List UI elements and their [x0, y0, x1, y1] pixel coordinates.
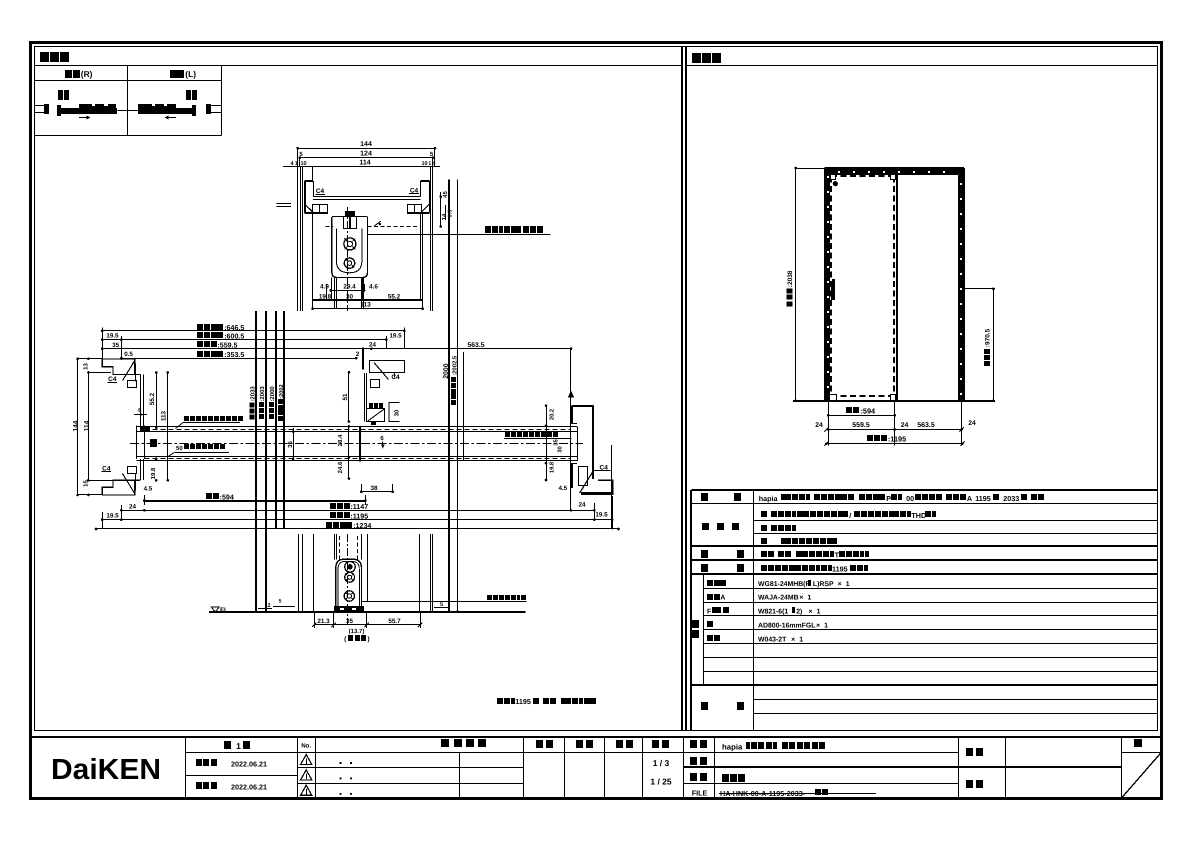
dim 13 / 15	[87, 357, 90, 360]
right extension verticals bottom	[594, 503, 596, 520]
spec table frame	[691, 489, 1157, 491]
svg-text:THD: THD	[911, 511, 926, 520]
stacked dim L1 wall opening 646.5	[102, 330, 404, 332]
svg-text:1: 1	[846, 581, 850, 588]
svg-text:C4: C4	[391, 374, 400, 381]
svg-text:10: 10	[300, 161, 306, 167]
elevation inner frame lines	[829, 174, 831, 400]
elevation bottom dim extensions	[828, 401, 830, 446]
svg-text:1: 1	[817, 609, 821, 616]
svg-text:1: 1	[799, 636, 803, 643]
svg-text:WG81-24MHB(R: WG81-24MHB(R	[758, 581, 810, 588]
door band top lines	[137, 426, 578, 428]
svg-text:×: ×	[799, 595, 803, 602]
leader label door-tail cap	[505, 432, 510, 437]
svg-text:24.6: 24.6	[337, 461, 344, 473]
hanger bolt nut	[345, 211, 355, 216]
row label 付属	[701, 564, 708, 572]
svg-text:35: 35	[553, 439, 560, 446]
svg-text:1195: 1195	[515, 697, 531, 706]
svg-text::353.5: :353.5	[224, 351, 244, 359]
svg-text:AD800-16mmFGL: AD800-16mmFGL	[758, 623, 815, 630]
break line 3	[275, 311, 277, 529]
svg-text:4.6: 4.6	[369, 284, 378, 291]
rotated height labels on break lines	[250, 386, 257, 420]
note caption	[497, 698, 503, 704]
stacked dim L2 600.5	[102, 339, 386, 341]
door slab vertical lines lower	[334, 534, 336, 560]
upper rail soffit lines	[313, 196, 421, 198]
bottom stacked dim L7 1234	[96, 528, 619, 530]
door centerline vertical	[347, 207, 349, 311]
svg-text:FL: FL	[220, 607, 228, 614]
hanger bracket	[344, 217, 357, 229]
elevation outer frame	[825, 167, 965, 169]
door pocket lines left	[136, 425, 138, 459]
wall break mark left	[277, 203, 292, 205]
svg-text:A: A	[967, 494, 972, 503]
guide screw top	[345, 562, 356, 573]
title row line r3	[297, 783, 524, 785]
dim door width 594	[828, 415, 895, 417]
label 名称	[690, 740, 697, 748]
floor line	[209, 611, 525, 613]
svg-text:24: 24	[129, 503, 137, 510]
door width dim 594	[144, 500, 365, 502]
guide screw mid	[345, 572, 355, 582]
door band bottom lines	[137, 456, 578, 458]
svg-text:563.5: 563.5	[917, 422, 935, 429]
svg-text:114: 114	[84, 420, 91, 431]
svg-text:19.5: 19.5	[106, 333, 119, 340]
dim 38	[361, 484, 363, 492]
svg-text:144: 144	[73, 420, 80, 431]
extra mid vertical	[463, 352, 465, 461]
svg-text::970.5: :970.5	[984, 328, 991, 347]
title row line r1	[185, 752, 524, 754]
dim extension horizontals left jamb	[78, 358, 102, 360]
band mid height dim 35	[293, 428, 295, 459]
svg-text:24: 24	[901, 422, 909, 429]
svg-text:5: 5	[279, 599, 282, 605]
svg-text:1 / 25: 1 / 25	[650, 777, 672, 787]
bottom stacked dim L6 1195	[102, 519, 612, 521]
svg-text:×: ×	[816, 623, 820, 630]
svg-text:35: 35	[287, 441, 294, 448]
label 品番	[690, 757, 697, 765]
header table for 右引/左引	[34, 80, 222, 82]
row label 把手	[701, 550, 708, 558]
stacked dim L4 353.5	[121, 358, 356, 360]
svg-text:(R): (R)	[81, 69, 93, 79]
height dim line 2000	[448, 180, 450, 612]
panel divider	[681, 46, 683, 731]
revision triangles	[301, 755, 312, 765]
break line 4	[283, 311, 285, 529]
spec content finish rows	[761, 511, 767, 517]
dim 19.8 left	[155, 458, 158, 461]
svg-text:55.2: 55.2	[388, 293, 401, 300]
svg-text:×: ×	[791, 636, 795, 643]
upper rail right leg	[421, 180, 430, 182]
top dim 124	[300, 157, 433, 159]
label 頁	[1134, 739, 1142, 747]
svg-text:1195: 1195	[975, 494, 991, 503]
svg-text:24: 24	[369, 342, 376, 349]
svg-text::646.5: :646.5	[224, 324, 244, 332]
dim 563.5 extension with up arrow	[570, 349, 572, 511]
svg-text:38: 38	[370, 485, 378, 492]
door panel dashed outline	[831, 176, 894, 396]
svg-text:2033: 2033	[1003, 494, 1019, 503]
header 承認	[536, 740, 543, 748]
right side small dims 45 14 0.5	[440, 192, 442, 227]
roller lower	[344, 258, 354, 268]
right jamb profile	[572, 405, 593, 407]
bottom dim line 21.3 35 55.7	[314, 624, 420, 626]
svg-text:20.2: 20.2	[548, 409, 555, 420]
spec content rail	[761, 565, 767, 571]
svg-text::2033: :2033	[250, 386, 257, 402]
svg-text:144: 144	[360, 141, 372, 148]
door band dashed inner bottom	[144, 458, 571, 460]
left extension verticals	[102, 328, 104, 361]
svg-text:45: 45	[442, 191, 449, 198]
svg-text:30: 30	[556, 446, 563, 452]
leader rail label	[368, 234, 551, 236]
svg-text:DaiKEN: DaiKEN	[51, 754, 161, 786]
svg-text:W043-2T: W043-2T	[758, 636, 787, 643]
spec content handle	[761, 551, 767, 557]
mini plan diagram right-sliding	[35, 105, 47, 107]
row label 要式	[701, 493, 708, 501]
svg-text:A: A	[720, 595, 725, 602]
datum tick on channel	[374, 221, 381, 226]
pivot dot	[833, 181, 838, 186]
wall lines right upper	[430, 167, 432, 311]
right wall line	[611, 445, 613, 529]
dim extension lines top	[297, 148, 299, 166]
revision dots	[339, 762, 341, 764]
date revised	[196, 782, 202, 789]
version cell 第1版	[224, 741, 231, 749]
svg-text:35: 35	[112, 342, 119, 349]
door edge gap marker	[362, 348, 364, 370]
dim frame width 1195	[827, 443, 963, 445]
svg-text::594: :594	[861, 406, 877, 415]
svg-text:2022.06.21: 2022.06.21	[231, 783, 267, 792]
svg-text:113: 113	[160, 410, 167, 421]
left jamb profile	[102, 359, 141, 374]
svg-text:21.3: 21.3	[317, 618, 330, 625]
dim row 24/559.5/24/563.5/24	[827, 429, 963, 431]
svg-text:1: 1	[236, 741, 241, 751]
break line 1 with height label	[255, 311, 257, 612]
svg-text:F: F	[707, 609, 711, 616]
dim 144 left	[77, 359, 79, 495]
header 作成	[616, 740, 623, 748]
wall lines left lower	[298, 534, 300, 612]
center post small box	[371, 380, 380, 388]
svg-text:19.5: 19.5	[106, 513, 119, 520]
door tail edge crossing band	[359, 427, 361, 462]
svg-text:35: 35	[346, 618, 354, 625]
top dim 144	[298, 148, 435, 150]
right jamb bottom flange	[579, 467, 588, 486]
wall lines right lower	[419, 534, 421, 612]
door top corner squares	[831, 175, 836, 180]
cell label 右引(R)	[65, 70, 72, 78]
bottom stacked dim L5 1147	[121, 510, 594, 512]
dim 114 left	[88, 373, 90, 481]
dim 30 bracket	[389, 403, 399, 422]
FL marker	[212, 607, 220, 612]
mini plan diagram left-sliding	[206, 104, 211, 114]
svg-text:28.4: 28.4	[337, 434, 344, 446]
svg-text:24: 24	[968, 420, 976, 427]
rotated label 2000	[443, 363, 450, 378]
sub-dims row2 thick	[312, 299, 422, 301]
svg-text:2000: 2000	[443, 363, 450, 378]
stacked dim L3 559.5 + 563.5	[102, 348, 571, 350]
svg-text::2002: :2002	[279, 384, 285, 398]
svg-text:×: ×	[809, 609, 813, 616]
elevation right jamb band	[959, 169, 963, 401]
door slab vertical lines upper	[334, 278, 336, 310]
dim 55.2	[156, 373, 158, 428]
svg-text:19.5: 19.5	[389, 332, 402, 339]
svg-text:19.8: 19.8	[548, 461, 555, 473]
svg-text:W821-6(1: W821-6(1	[758, 609, 788, 616]
svg-text:19.8: 19.8	[319, 293, 332, 300]
cell label 左引(L)	[170, 70, 177, 78]
svg-text:55.7: 55.7	[388, 618, 401, 625]
center post top bar	[370, 361, 405, 373]
wall lines left upper	[297, 167, 299, 311]
svg-text::594: :594	[220, 493, 234, 501]
center post left face	[364, 373, 366, 421]
right jamb dim vertical 20.2/19.8	[546, 406, 548, 480]
height dim line 2002.5	[457, 180, 459, 612]
roller upper	[344, 238, 356, 250]
svg-text:1: 1	[428, 161, 431, 167]
svg-text:hapia: hapia	[759, 494, 779, 503]
svg-text::2002.5: :2002.5	[451, 355, 458, 376]
bottom dims extension lines	[314, 612, 316, 628]
svg-text::1195: :1195	[888, 435, 906, 444]
svg-text::2000: :2000	[269, 386, 276, 402]
svg-text:P: P	[886, 494, 891, 503]
svg-text:559.5: 559.5	[852, 422, 870, 429]
channel dashed line	[326, 226, 333, 228]
svg-text:1: 1	[808, 595, 812, 602]
elevation floor line	[793, 400, 995, 402]
svg-text:1 / 3: 1 / 3	[653, 758, 670, 768]
svg-text:L)RSP: L)RSP	[813, 581, 834, 588]
door nose handle recess	[140, 427, 150, 432]
svg-text:29.4: 29.4	[343, 284, 356, 291]
inner border frame	[35, 47, 1158, 731]
door band end cap at right pocket	[577, 427, 579, 461]
page diagonal	[1122, 752, 1162, 798]
svg-text:24: 24	[578, 502, 586, 509]
svg-text:4.5: 4.5	[144, 486, 153, 493]
door nose rubber cap blob	[150, 439, 157, 447]
svg-text:0.5: 0.5	[124, 351, 133, 358]
row label 仕上げ	[702, 523, 709, 530]
label magnet	[369, 403, 373, 408]
guide screw bottom	[344, 591, 354, 601]
upper rail left leg	[305, 180, 314, 182]
svg-text:124: 124	[360, 150, 372, 157]
svg-text:T: T	[835, 551, 840, 560]
svg-text:1: 1	[824, 623, 828, 630]
svg-text:4.9: 4.9	[320, 284, 329, 291]
svg-text:30: 30	[394, 409, 401, 416]
svg-text:114: 114	[359, 160, 370, 167]
svg-text::1234: :1234	[353, 522, 371, 530]
svg-text:19.8: 19.8	[150, 467, 157, 479]
row label 品番	[692, 620, 699, 628]
svg-text::2038: :2038	[787, 270, 794, 287]
svg-text:1195: 1195	[832, 565, 848, 574]
hanger housing	[332, 217, 368, 278]
rotated label 有効開口高2002.5	[451, 355, 459, 405]
elevation left jamb band	[826, 169, 830, 401]
door handle	[831, 281, 835, 300]
revision inner divider	[459, 752, 461, 798]
dim frame height 2038	[795, 168, 797, 401]
label 図名	[690, 773, 697, 781]
title row line r2 thick	[297, 767, 524, 769]
label 件名	[966, 748, 973, 756]
dim 113 vertical	[167, 373, 169, 481]
title block frame	[31, 736, 1161, 738]
svg-text:(13.7): (13.7)	[349, 628, 365, 635]
svg-text:00: 00	[906, 494, 914, 503]
extension verticals below top section	[312, 213, 314, 308]
dims 28.4 and 24.6	[348, 426, 350, 478]
svg-text:19.5: 19.5	[595, 512, 608, 519]
row label 備考	[701, 702, 708, 710]
svg-text:2): 2)	[796, 609, 802, 616]
header 縮尺	[652, 740, 659, 748]
left jamb bottom flange	[102, 480, 141, 495]
dim 51	[348, 372, 350, 421]
door bottom guides	[830, 395, 837, 401]
svg-text::559.5: :559.5	[217, 342, 237, 350]
svg-text:): )	[368, 636, 370, 643]
dim handle height 970.5	[993, 289, 995, 401]
guide base plate	[334, 606, 364, 611]
svg-text:/: /	[849, 511, 851, 520]
section title 断面図	[40, 52, 49, 62]
pin sub column	[703, 574, 705, 685]
header 確認	[576, 740, 583, 748]
sub-dims below top section row1	[331, 290, 364, 292]
door band dashed inner top	[144, 429, 571, 431]
svg-text:51: 51	[342, 393, 349, 401]
svg-text:No.: No.	[301, 743, 311, 750]
center mullion line	[896, 174, 898, 400]
sub-dim 113	[313, 308, 423, 310]
svg-text:13: 13	[83, 363, 90, 370]
door band centerline	[130, 443, 583, 445]
sub labels	[707, 580, 713, 586]
break line 2	[265, 311, 267, 612]
hatched catch box	[367, 409, 385, 422]
title date row line	[185, 775, 297, 777]
elevation head band	[830, 169, 959, 174]
svg-text:563.5: 563.5	[467, 342, 484, 349]
svg-text:4.5: 4.5	[558, 485, 567, 492]
svg-text:WAJA-24MB: WAJA-24MB	[758, 595, 799, 602]
section title 正面図	[692, 53, 701, 63]
floor guide shoe outline	[336, 559, 362, 611]
flat rail leader	[362, 601, 527, 603]
svg-text:(L): (L)	[185, 69, 196, 79]
revision history header	[441, 739, 449, 747]
svg-text:2: 2	[356, 351, 360, 358]
top dim 114 / ceiling line	[283, 166, 440, 168]
svg-text:hapia: hapia	[722, 742, 743, 751]
svg-text:2022.06.21: 2022.06.21	[231, 759, 267, 768]
date established	[196, 759, 202, 766]
leader label performance	[184, 416, 189, 421]
svg-text::600.5: :600.5	[224, 333, 244, 341]
svg-text:55.2: 55.2	[149, 392, 156, 405]
svg-text:24: 24	[815, 422, 823, 429]
drawing name 三面図	[722, 774, 729, 782]
svg-text:FILE: FILE	[692, 789, 708, 798]
door centerline lower	[347, 534, 349, 625]
svg-text:10: 10	[421, 161, 427, 167]
label 図員	[966, 780, 973, 788]
svg-text::2003: :2003	[259, 386, 266, 402]
svg-text:50: 50	[176, 445, 183, 452]
svg-text:×: ×	[838, 581, 842, 588]
svg-text::1195: :1195	[350, 513, 368, 521]
